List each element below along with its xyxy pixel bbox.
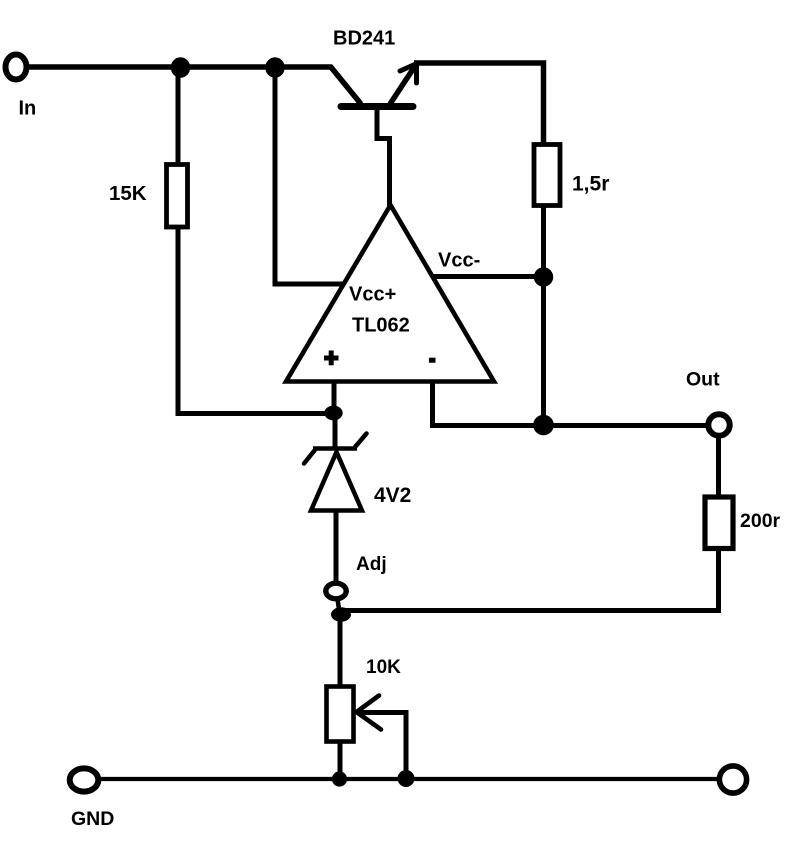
- wire junction to potentiometer: [338, 614, 343, 688]
- terminal In: [6, 55, 27, 80]
- junction node +input / zener: [324, 406, 342, 421]
- junction node output line: [533, 415, 554, 436]
- wire 200r to Adj node: [341, 548, 719, 611]
- junction node pot on ground: [332, 771, 347, 786]
- potentiometer 10K: [327, 687, 407, 780]
- label + input: [324, 351, 339, 366]
- svg-text:15K: 15K: [109, 182, 147, 205]
- wire Vcc-: [432, 274, 546, 279]
- base bar: [341, 103, 413, 110]
- wire Out to 200r: [716, 435, 721, 496]
- junction node at Vcc+ tap: [265, 57, 284, 78]
- svg-text:GND: GND: [71, 808, 114, 830]
- zener diode D1 4V2: [304, 413, 367, 582]
- wiper arrow barb lower: [357, 712, 382, 730]
- junction node wiper on ground: [398, 770, 415, 787]
- terminal Adj: [326, 583, 346, 599]
- svg-text:Vcc-: Vcc-: [438, 249, 480, 271]
- label - input: [429, 358, 436, 363]
- junction node at 15K tap: [171, 57, 190, 78]
- resistor 200r: [705, 497, 733, 549]
- svg-text:Adj: Adj: [356, 554, 387, 575]
- svg-text:Vcc+: Vcc+: [349, 283, 396, 305]
- svg-text:4V2: 4V2: [374, 484, 411, 507]
- cathode bar right tip: [356, 434, 367, 447]
- svg-text:Out: Out: [686, 369, 720, 391]
- resistor 1,5r: [534, 145, 560, 206]
- wire junction down to 15K: [176, 67, 181, 164]
- wire Adj circle to junction: [338, 599, 340, 613]
- svg-text:TL062: TL062: [352, 314, 410, 336]
- svg-text:BD241: BD241: [333, 27, 395, 49]
- resistor 15K: [167, 165, 188, 228]
- svg-text:1,5r: 1,5r: [572, 173, 609, 196]
- anode lead: [334, 511, 339, 582]
- transistor Q1 BD241: [330, 63, 418, 206]
- svg-text:200r: 200r: [740, 510, 781, 532]
- op-amp U1 TL062: [286, 205, 494, 382]
- svg-text:10K: 10K: [366, 657, 401, 678]
- wiper shaft: [358, 713, 406, 779]
- pot bottom lead: [338, 741, 343, 779]
- wire -input to Out: [433, 382, 713, 426]
- wire In to transistor collector: [27, 64, 332, 70]
- wiper arrow barb upper: [357, 696, 380, 713]
- emitter diagonal: [390, 63, 417, 104]
- collector diagonal: [330, 66, 361, 104]
- cathode lead: [333, 413, 338, 450]
- terminal GND right: [719, 766, 746, 793]
- terminal Out: [708, 414, 729, 435]
- wire 15K bottom to +input junction: [178, 227, 334, 414]
- emitter arrow barb horizontal: [400, 63, 418, 71]
- cathode bar: [313, 446, 357, 451]
- wire +input down: [332, 382, 337, 414]
- cathode bar left tip: [304, 451, 315, 464]
- wire 1,5r bottom down to output line: [541, 205, 546, 425]
- terminal GND left: [70, 768, 99, 791]
- ground bus wire: [97, 777, 720, 781]
- base lead down to op-amp output: [377, 109, 390, 206]
- junction node Vcc- / 1,5r: [534, 267, 553, 286]
- junction node Adj: [331, 607, 351, 622]
- svg-text:In: In: [19, 98, 37, 120]
- anode triangle: [311, 452, 362, 511]
- wire emitter to 1,5r: [414, 63, 544, 145]
- emitter arrow barb vertical: [414, 65, 419, 83]
- wire Vcc+ feed: [275, 67, 344, 284]
